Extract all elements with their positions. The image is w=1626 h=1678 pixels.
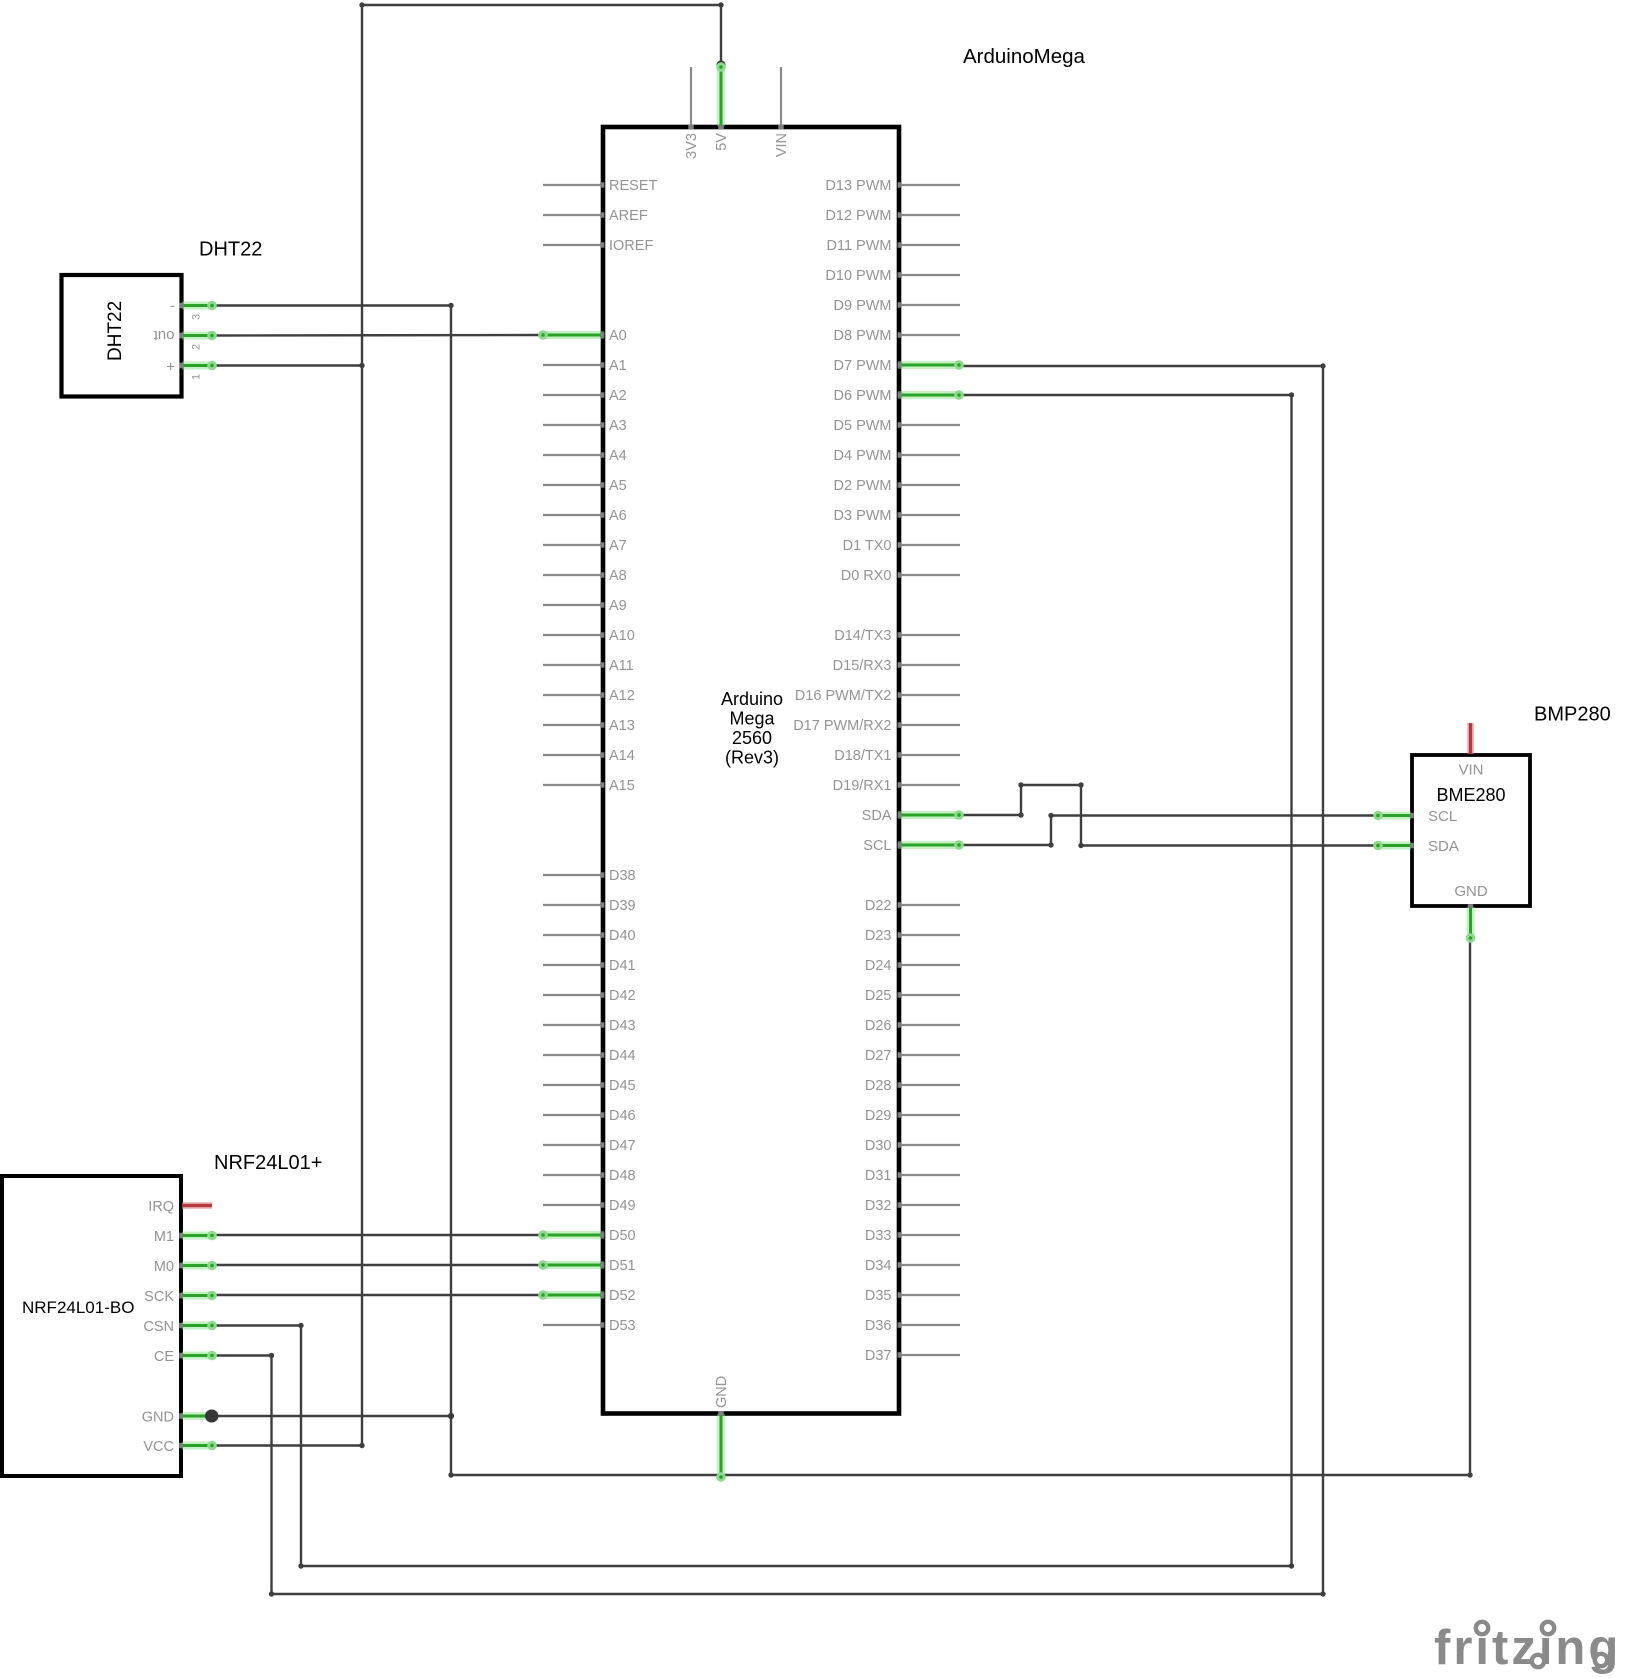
pin D42: [543, 988, 636, 1004]
svg-text:VCC: VCC: [143, 1439, 174, 1455]
label ArduinoMega title: [963, 45, 1086, 68]
svg-text:A7: A7: [609, 538, 627, 554]
pin + (DHT22 pin 1): [166, 359, 217, 376]
pin SCL: [863, 838, 964, 854]
svg-text:5V: 5V: [714, 133, 730, 151]
pin D13 PWM: [825, 178, 960, 194]
pin D22: [865, 898, 960, 914]
svg-text:A10: A10: [609, 628, 635, 644]
pin D43: [543, 1018, 636, 1034]
svg-text:GND: GND: [714, 1376, 730, 1408]
svg-text:D40: D40: [609, 928, 636, 944]
svg-text:D7 PWM: D7 PWM: [834, 358, 892, 374]
pin VCC (NRF24L01): [143, 1439, 216, 1455]
svg-text:GND: GND: [142, 1410, 174, 1426]
svg-text:fritzing: fritzing: [1434, 1621, 1621, 1675]
pin D17 PWM/RX2: [793, 718, 960, 734]
svg-text:D17 PWM/RX2: D17 PWM/RX2: [793, 718, 891, 734]
pin IRQ (unconnected, red): [148, 1199, 212, 1215]
pin D0 RX0: [841, 568, 960, 584]
svg-text:D28: D28: [865, 1078, 892, 1094]
svg-text:1: 1: [191, 374, 203, 380]
pin D30: [865, 1138, 960, 1154]
wire NRF24L01 M0 to Arduino D51: [212, 1264, 543, 1266]
svg-text:D36: D36: [865, 1318, 892, 1334]
svg-text:VIN: VIN: [774, 133, 790, 157]
svg-text:D5 PWM: D5 PWM: [834, 418, 892, 434]
pin - (DHT22 pin 3): [170, 298, 217, 315]
svg-text:D22: D22: [865, 898, 892, 914]
pin D46: [543, 1108, 636, 1124]
svg-text:A14: A14: [609, 748, 635, 764]
svg-text:GND: GND: [1454, 883, 1488, 900]
pin A4: [543, 448, 627, 464]
svg-text:DHT22: DHT22: [199, 239, 262, 261]
pin D26: [865, 1018, 960, 1034]
pin A5: [543, 478, 627, 494]
svg-text:D35: D35: [865, 1288, 892, 1304]
wire NRF24L01 CE to Arduino D7 PWM: [212, 363, 1326, 1596]
pin D33: [865, 1228, 960, 1244]
svg-text:D50: D50: [609, 1228, 636, 1244]
pin GND (NRF24L01) with solder junction dot: [142, 1410, 218, 1426]
pin D2 PWM: [834, 478, 961, 494]
pin D24: [865, 958, 960, 974]
pin D31: [865, 1168, 960, 1184]
svg-text:2560: 2560: [732, 728, 772, 748]
svg-text:D43: D43: [609, 1018, 636, 1034]
pin A13: [543, 718, 635, 734]
pin 3V3: [684, 67, 700, 159]
svg-text:SCK: SCK: [144, 1289, 174, 1305]
pin D25: [865, 988, 960, 1004]
svg-text:BMP280: BMP280: [1534, 704, 1611, 726]
pin A14: [543, 748, 635, 764]
pin D38: [543, 868, 636, 884]
svg-text:A3: A3: [609, 418, 627, 434]
svg-text:D1 TX0: D1 TX0: [843, 538, 892, 554]
label NRF24L01+ title: [214, 1152, 322, 1174]
pin D19/RX1: [833, 778, 960, 794]
pin A9: [543, 598, 627, 614]
svg-text:RESET: RESET: [609, 178, 657, 194]
BMP280 (BME280) sensor component body: [1412, 755, 1530, 906]
pin GND (Arduino): [714, 1376, 730, 1482]
svg-text:3V3: 3V3: [684, 133, 700, 159]
svg-text:A2: A2: [609, 388, 627, 404]
svg-text:NRF24L01-BO: NRF24L01-BO: [22, 1298, 134, 1317]
pin D12 PWM: [825, 208, 960, 224]
svg-text:ArduinoMega: ArduinoMega: [963, 45, 1086, 68]
pin D35: [865, 1288, 960, 1304]
svg-text:-: -: [170, 298, 175, 315]
svg-text:A0: A0: [609, 328, 627, 344]
svg-text:A12: A12: [609, 688, 635, 704]
svg-text:out: out: [153, 327, 175, 344]
pin A8: [543, 568, 627, 584]
svg-text:D14/TX3: D14/TX3: [834, 628, 891, 644]
svg-text:D6 PWM: D6 PWM: [834, 388, 892, 404]
pin GND (BMP280): [1466, 904, 1476, 943]
svg-text:D38: D38: [609, 868, 636, 884]
svg-text:CSN: CSN: [143, 1319, 174, 1335]
svg-text:+: +: [166, 359, 175, 376]
svg-text:2: 2: [191, 344, 203, 350]
svg-text:D13 PWM: D13 PWM: [825, 178, 891, 194]
pin D41: [543, 958, 636, 974]
svg-text:D46: D46: [609, 1108, 636, 1124]
pin CE (NRF24L01): [154, 1349, 217, 1365]
svg-text:D29: D29: [865, 1108, 892, 1124]
wire NRF24L01 GND to ground vertical: [206, 1410, 451, 1423]
svg-text:D2 PWM: D2 PWM: [834, 478, 892, 494]
svg-text:3: 3: [191, 314, 203, 320]
pin D29: [865, 1108, 960, 1124]
pin number 1: [191, 374, 203, 380]
pin D6 PWM: [834, 388, 964, 404]
pin A10: [543, 628, 635, 644]
svg-text:D42: D42: [609, 988, 636, 1004]
svg-text:D39: D39: [609, 898, 636, 914]
wire NRF24L01 CSN to Arduino D6 PWM: [212, 392, 1294, 1568]
svg-text:D15/RX3: D15/RX3: [833, 658, 892, 674]
svg-text:D0 RX0: D0 RX0: [841, 568, 892, 584]
pin D8 PWM: [834, 328, 961, 344]
svg-text:D19/RX1: D19/RX1: [833, 778, 892, 794]
svg-text:D3 PWM: D3 PWM: [834, 508, 892, 524]
wire NRF24L01 SCK to Arduino D52: [212, 1294, 543, 1296]
pin A0: [538, 328, 627, 344]
svg-text:D12 PWM: D12 PWM: [825, 208, 891, 224]
pin D44: [543, 1048, 636, 1064]
pin VIN (BMP280, unconnected red): [1467, 723, 1474, 754]
pin SCK (NRF24L01): [144, 1289, 217, 1305]
svg-text:D53: D53: [609, 1318, 636, 1334]
pin A6: [543, 508, 627, 524]
svg-text:NRF24L01+: NRF24L01+: [214, 1152, 322, 1174]
pin SCL (BMP280): [1373, 811, 1414, 821]
pin D50: [538, 1228, 635, 1244]
svg-text:D18/TX1: D18/TX1: [834, 748, 891, 764]
wire Arduino SDA to BME280 SDA: [960, 782, 1378, 848]
svg-text:D41: D41: [609, 958, 636, 974]
NRF24L01+ radio module component body: [2, 1176, 181, 1476]
pin D48: [543, 1168, 636, 1184]
svg-text:SDA: SDA: [1428, 838, 1459, 855]
svg-text:D26: D26: [865, 1018, 892, 1034]
pin D53: [543, 1318, 636, 1334]
svg-text:A9: A9: [609, 598, 627, 614]
svg-text:D52: D52: [609, 1288, 636, 1304]
pin A3: [543, 418, 627, 434]
svg-text:AREF: AREF: [609, 208, 648, 224]
svg-text:SCL: SCL: [863, 838, 891, 854]
wire NRF24L01 VCC to 5V rail: [212, 1443, 365, 1448]
pin D4 PWM: [834, 448, 961, 464]
wire GND: DHT22 - pin down left side to ground run: [212, 303, 1473, 1478]
svg-text:CE: CE: [154, 1349, 174, 1365]
pin D27: [865, 1048, 960, 1064]
pin A1: [543, 358, 627, 374]
svg-text:D24: D24: [865, 958, 892, 974]
svg-text:D48: D48: [609, 1168, 636, 1184]
svg-text:D25: D25: [865, 988, 892, 1004]
svg-text:D31: D31: [865, 1168, 892, 1184]
svg-text:D33: D33: [865, 1228, 892, 1244]
svg-text:D51: D51: [609, 1258, 636, 1274]
svg-text:VIN: VIN: [1458, 762, 1483, 779]
pin 5V: [714, 62, 730, 151]
svg-text:A15: A15: [609, 778, 635, 794]
svg-text:D23: D23: [865, 928, 892, 944]
DHT22 sensor component body: [62, 275, 182, 397]
pin A12: [543, 688, 635, 704]
svg-text:M0: M0: [154, 1259, 174, 1275]
pin D28: [865, 1078, 960, 1094]
Arduino Mega 2560 (U1) component body: [603, 127, 899, 1414]
wire 5V rail vertical (x=362): [361, 5, 363, 1446]
wire Arduino SCL to BME280 SCL: [960, 813, 1378, 848]
pin D39: [543, 898, 636, 914]
pin number 3: [191, 314, 203, 320]
svg-text:D30: D30: [865, 1138, 892, 1154]
pin D9 PWM: [834, 298, 961, 314]
svg-text:A11: A11: [609, 658, 634, 674]
svg-text:A6: A6: [609, 508, 627, 524]
svg-text:SDA: SDA: [862, 808, 892, 824]
svg-text:SCL: SCL: [1428, 808, 1457, 825]
pin D52: [538, 1288, 635, 1304]
pin SDA: [862, 808, 964, 824]
svg-text:BME280: BME280: [1436, 785, 1505, 805]
svg-text:D37: D37: [865, 1348, 892, 1364]
pin D14/TX3: [834, 628, 960, 644]
pin D7 PWM: [834, 358, 964, 374]
label DHT22 title: [199, 239, 262, 261]
pin D40: [543, 928, 636, 944]
pin AREF: [543, 208, 648, 224]
svg-text:D32: D32: [865, 1198, 892, 1214]
pin SDA (BMP280): [1373, 841, 1414, 851]
svg-text:A1: A1: [609, 358, 627, 374]
svg-text:D47: D47: [609, 1138, 636, 1154]
pin D1 TX0: [843, 538, 960, 554]
pin D5 PWM: [834, 418, 961, 434]
svg-text:M1: M1: [154, 1229, 174, 1245]
fritzing watermark logo: [1434, 1621, 1621, 1675]
pin number 2: [191, 344, 203, 350]
pin A11: [543, 658, 634, 674]
svg-text:Arduino: Arduino: [721, 689, 783, 709]
svg-text:Mega: Mega: [729, 709, 775, 729]
pin D37: [865, 1348, 960, 1364]
svg-text:DHT22: DHT22: [105, 301, 126, 361]
svg-text:D44: D44: [609, 1048, 636, 1064]
svg-text:D49: D49: [609, 1198, 636, 1214]
svg-text:D16 PWM/TX2: D16 PWM/TX2: [795, 688, 892, 704]
svg-text:D27: D27: [865, 1048, 892, 1064]
svg-text:(Rev3): (Rev3): [725, 748, 779, 768]
pin D23: [865, 928, 960, 944]
wire 5V: top run from 5V rail to Arduino 5V pin: [359, 2, 725, 69]
svg-text:D4 PWM: D4 PWM: [834, 448, 892, 464]
svg-text:D8 PWM: D8 PWM: [834, 328, 892, 344]
pin M0 (NRF24L01): [154, 1259, 217, 1275]
svg-text:D11 PWM: D11 PWM: [827, 238, 892, 254]
pin D15/RX3: [833, 658, 960, 674]
pin IOREF: [543, 238, 653, 254]
wire DHT22 out to Arduino A0: [212, 334, 543, 337]
label BMP280 title: [1534, 704, 1611, 726]
pin D11 PWM: [827, 238, 961, 254]
pin D34: [865, 1258, 960, 1274]
svg-text:A8: A8: [609, 568, 627, 584]
pin A15: [543, 778, 635, 794]
svg-text:D10 PWM: D10 PWM: [825, 268, 891, 284]
pin D51: [538, 1258, 635, 1274]
pin out (DHT22 pin 2): [153, 327, 217, 344]
pin VIN: [774, 67, 790, 157]
svg-text:A5: A5: [609, 478, 627, 494]
pin D47: [543, 1138, 636, 1154]
pin D10 PWM: [825, 268, 960, 284]
pin D45: [543, 1078, 636, 1094]
pin CSN (NRF24L01): [143, 1319, 216, 1335]
pin D18/TX1: [834, 748, 960, 764]
svg-text:A13: A13: [609, 718, 635, 734]
pin RESET: [543, 178, 657, 194]
pin D32: [865, 1198, 960, 1214]
svg-text:D34: D34: [865, 1258, 892, 1274]
svg-text:IRQ: IRQ: [148, 1199, 174, 1215]
svg-text:IOREF: IOREF: [609, 238, 653, 254]
svg-text:D45: D45: [609, 1078, 636, 1094]
svg-text:D9 PWM: D9 PWM: [834, 298, 892, 314]
pin D16 PWM/TX2: [795, 688, 960, 704]
wire DHT22 + pin to 5V rail: [212, 363, 365, 368]
wire NRF24L01 M1 to Arduino D50: [212, 1234, 543, 1236]
pin A2: [543, 388, 627, 404]
pin A7: [543, 538, 627, 554]
pin D36: [865, 1318, 960, 1334]
wire BMP280 GND down to ground run: [1469, 938, 1471, 1475]
svg-text:A4: A4: [609, 448, 627, 464]
pin D3 PWM: [834, 508, 961, 524]
pin M1 (NRF24L01): [154, 1229, 217, 1245]
pin D49: [543, 1198, 636, 1214]
